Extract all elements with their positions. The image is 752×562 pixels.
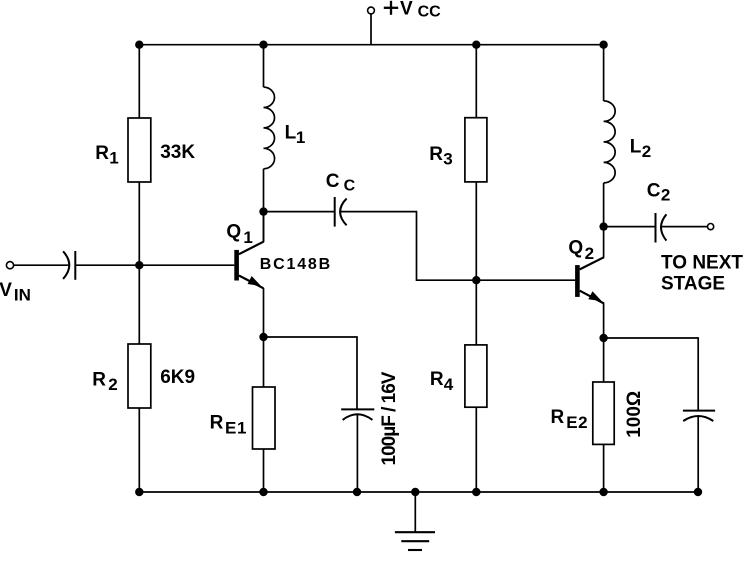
svg-text:100Ω: 100Ω	[624, 391, 645, 438]
wire node to capacitor CC	[264, 211, 335, 213]
capacitor C-in curved plate	[63, 251, 69, 279]
terminal output	[708, 224, 714, 230]
svg-text:6K9: 6K9	[160, 367, 195, 388]
node junction Q1 emitter / bypass cap	[259, 333, 267, 341]
capacitor C-E1 top plate	[341, 408, 374, 410]
svg-text:Q: Q	[226, 222, 241, 243]
wire CC to Q2 base (with corner)	[341, 212, 576, 281]
wire emitter node to bypass cap C-E2	[604, 338, 699, 411]
wire RE2 to bottom rail	[603, 444, 605, 492]
capacitor C2 straight plate	[655, 213, 657, 243]
svg-text:Q: Q	[568, 237, 583, 258]
capacitor CC straight plate	[334, 197, 336, 227]
node junction L2 / Q2 collector / C2	[599, 222, 607, 230]
capacitor C-in straight plate	[74, 251, 76, 280]
svg-text:R: R	[210, 412, 224, 433]
resistor R4	[465, 345, 487, 407]
wire node to capacitor C2	[604, 226, 656, 228]
wire C-E1 to bottom rail	[356, 414, 358, 492]
svg-text:R: R	[429, 144, 443, 165]
label TO NEXT STAGE	[661, 252, 743, 294]
capacitor C-E1 curved plate	[343, 414, 373, 420]
label L2	[630, 136, 651, 161]
svg-text:2: 2	[661, 186, 670, 205]
node junction bottom rail / C-E1	[353, 488, 361, 496]
node junction bottom rail / ground	[411, 488, 419, 496]
wire top rail to L2	[603, 45, 605, 101]
wire R2 to bottom rail	[138, 408, 140, 492]
label C2	[647, 181, 671, 205]
label R2	[92, 370, 118, 395]
svg-text:C: C	[344, 177, 356, 194]
label CC	[326, 171, 356, 195]
wire ground stem	[414, 492, 416, 532]
node junction bottom rail / RE1	[259, 488, 267, 496]
capacitor C-E2 top plate	[683, 410, 715, 412]
resistor R1	[128, 118, 151, 182]
svg-text:CC: CC	[418, 4, 442, 21]
resistor R3	[465, 118, 487, 182]
resistor R2	[128, 344, 151, 408]
node junction top rail / R3 branch	[472, 41, 480, 49]
wire C-E2 to bottom rail end	[697, 416, 699, 492]
wire L1 to collector node	[263, 169, 265, 242]
node junction Q2 emitter / bypass cap	[599, 334, 607, 342]
svg-text:1: 1	[296, 128, 305, 147]
capacitor CC curved plate	[340, 199, 347, 226]
svg-text:R: R	[551, 407, 565, 428]
wire input terminal to coupling cap	[14, 264, 69, 266]
node junction top rail / R1 branch	[135, 41, 143, 49]
ground	[395, 532, 435, 550]
wire RE1 to bottom rail	[263, 449, 265, 492]
svg-text:2: 2	[108, 375, 117, 394]
svg-text:C: C	[647, 181, 661, 202]
label RE2	[551, 407, 589, 432]
node junction bottom rail / R2	[135, 488, 143, 496]
label Q1	[226, 222, 252, 247]
transistor Q1	[234, 242, 263, 289]
svg-text:R: R	[430, 369, 444, 390]
wire top rail to L1	[263, 45, 265, 87]
resistor RE1	[253, 387, 276, 449]
inductor L1	[264, 87, 275, 169]
label L1	[285, 122, 306, 147]
capacitor C-E2 curved plate	[683, 416, 713, 421]
wire R4 to bottom rail	[475, 407, 477, 492]
label +VCC	[384, 0, 441, 21]
svg-text:1: 1	[243, 228, 252, 247]
wire C2 to output terminal	[661, 226, 708, 228]
wire L2 to collector node	[603, 183, 605, 258]
node junction bottom rail / R4	[472, 488, 480, 496]
label RE1	[210, 412, 247, 437]
svg-text:3: 3	[443, 149, 452, 168]
wire R1 to VIN node	[138, 182, 140, 344]
svg-text:33K: 33K	[160, 142, 195, 163]
svg-text:L: L	[285, 122, 297, 143]
wire top rail	[139, 44, 603, 46]
wire Q1 collector vertical	[263, 212, 265, 242]
svg-text:STAGE: STAGE	[661, 274, 725, 295]
capacitor C2 curved plate	[661, 214, 666, 240]
wire Q2 emitter to RE2	[603, 303, 605, 382]
svg-text:BC148B: BC148B	[260, 256, 332, 273]
svg-text:100µF / 16V: 100µF / 16V	[379, 371, 400, 465]
wire C-in to Q1 base (through node)	[75, 264, 234, 266]
label Q2	[568, 237, 594, 263]
label R1	[95, 143, 118, 168]
terminal VIN input	[6, 262, 13, 269]
svg-text:R: R	[95, 143, 109, 164]
wire top rail to R1	[138, 45, 140, 118]
wire R3 to R4 (through base node)	[475, 182, 477, 345]
svg-text:TO NEXT: TO NEXT	[661, 252, 743, 273]
svg-text:R: R	[92, 370, 106, 391]
wire top rail to R3	[475, 45, 477, 118]
svg-text:2: 2	[585, 244, 594, 263]
inductor L2	[604, 101, 616, 183]
svg-text:V: V	[0, 280, 12, 301]
node junction top rail / L1 branch	[259, 41, 267, 49]
transistor Q2	[575, 257, 604, 303]
svg-text:2: 2	[642, 142, 651, 161]
node junction bottom rail / C-E2	[694, 488, 702, 496]
svg-text:L: L	[630, 136, 642, 157]
svg-text:E2: E2	[566, 413, 588, 432]
svg-text:V: V	[400, 0, 413, 19]
node junction top rail / L2 branch	[599, 41, 607, 49]
node junction bottom rail / RE2	[599, 488, 607, 496]
wire emitter node to bypass cap C-E1	[264, 337, 358, 409]
node junction L1 / Q1 collector / CC	[259, 207, 267, 215]
wire Q1 emitter to RE1	[263, 288, 265, 387]
label VIN	[0, 280, 31, 304]
svg-text:4: 4	[444, 375, 454, 394]
resistor RE2	[593, 382, 614, 444]
label R4	[430, 369, 454, 394]
label R3	[429, 144, 452, 169]
node junction base line / R3-R4	[472, 276, 480, 284]
terminal +VCC	[368, 7, 375, 14]
svg-text:IN: IN	[14, 285, 31, 304]
node junction VIN / R1-R2	[135, 261, 143, 269]
svg-text:C: C	[326, 171, 340, 192]
wire VCC terminal to top rail	[370, 14, 372, 45]
svg-text:E1: E1	[225, 419, 247, 438]
svg-text:1: 1	[109, 149, 118, 168]
wire bottom rail	[139, 491, 698, 493]
